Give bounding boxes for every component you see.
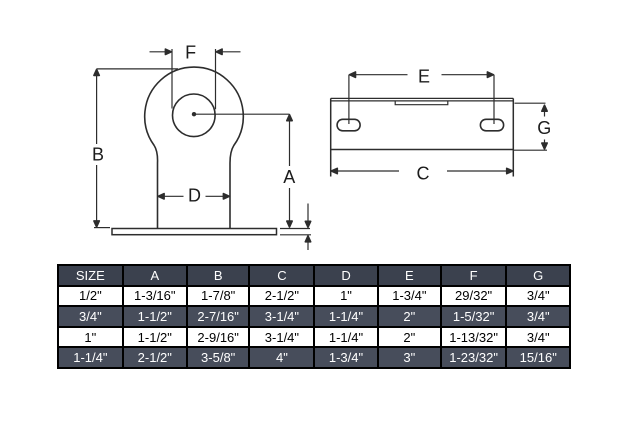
dimension A arrow down [287, 221, 292, 227]
base plate top view outline [331, 98, 514, 176]
dimensions table [57, 264, 571, 369]
dimension B arrow up [94, 69, 99, 75]
dimension D left arrow [158, 194, 164, 199]
left slot [337, 119, 360, 131]
svg-text:E: E [418, 67, 430, 87]
dimension E left arrow [350, 72, 356, 77]
dimension B line [96, 70, 98, 227]
svg-text:C: C [417, 163, 430, 183]
dimension E left witness line [348, 75, 350, 124]
dimension G line upper [544, 106, 546, 117]
plate thickness lower arrow [307, 238, 309, 251]
stem tab on top edge [395, 101, 448, 105]
right slot [480, 119, 503, 131]
dimension A arrow up [287, 115, 292, 121]
plate thickness extension line top [280, 228, 310, 230]
svg-text:F: F [185, 43, 196, 63]
dimension G arrow up [542, 105, 547, 111]
dimension G extension line bottom [514, 149, 548, 151]
dimension B arrow down [94, 221, 99, 227]
dimension D right arrow [223, 194, 229, 199]
dimension B extension line bottom [94, 227, 110, 229]
dimension D line [163, 195, 226, 197]
plate thickness upper arrow [307, 204, 309, 227]
hole center mark dot [192, 112, 196, 116]
dimension E right arrow [487, 72, 493, 77]
base plate front view [112, 229, 277, 235]
dimension F right witness line [215, 49, 217, 109]
svg-text:G: G [537, 118, 551, 138]
dimension C line [333, 170, 512, 172]
dimension G line lower [544, 140, 546, 149]
svg-text:D: D [188, 186, 201, 206]
eye-socket bracket front view outline [145, 67, 244, 228]
dimension C left arrow [331, 168, 337, 173]
svg-text:A: A [283, 167, 295, 187]
dimension F left arrow [150, 51, 168, 53]
dimension F right arrow [221, 51, 241, 53]
dimension C right arrow [507, 168, 513, 173]
hole center line to A [194, 113, 290, 115]
plate thickness extension line bottom [280, 234, 311, 236]
dimension B extension line top [97, 68, 178, 70]
svg-text:B: B [92, 145, 104, 165]
dimension G extension line top [515, 102, 546, 104]
dimension F left witness line [171, 49, 173, 109]
dimension E right witness line [493, 75, 495, 124]
dimension G arrow down [542, 143, 547, 149]
dimension E line [351, 74, 492, 76]
dimension A line [289, 115, 291, 226]
bracket hole (bore) front view [173, 94, 216, 137]
